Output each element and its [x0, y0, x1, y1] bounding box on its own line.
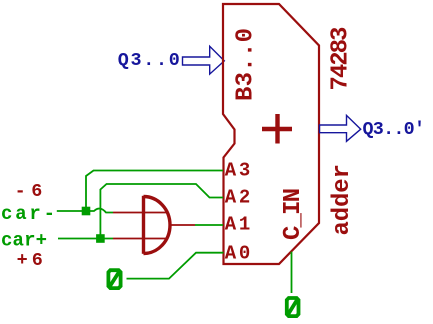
svg-text:adder: adder: [329, 164, 356, 236]
pin label A1: [225, 214, 251, 236]
bus label Q3..0: [118, 50, 180, 71]
svg-text:B3..0: B3..0: [233, 28, 260, 101]
wire junction car- up to A3: [86, 171, 223, 212]
wire C_IN down to constant 0: [291, 252, 293, 293]
wire hop over vertical, car- to gate input: [90, 209, 113, 213]
bus arrow out Q3..0': [320, 115, 361, 141]
svg-text:C_IN: C_IN: [280, 188, 307, 240]
svg-text:Q3..0: Q3..0: [118, 50, 180, 71]
wire car+ to junction and gate input: [58, 238, 113, 240]
wire gate output to A1: [195, 224, 223, 226]
constant 0 source (bottom): [287, 298, 299, 316]
wire junction car+ up to A2: [100, 184, 223, 239]
junction car+: [96, 234, 105, 243]
svg-text:car+: car+: [1, 229, 47, 251]
svg-text:Q3..0': Q3..0': [363, 119, 426, 140]
instance name adder (rotated): [329, 164, 356, 236]
label -6: [15, 181, 43, 202]
AND gate G1 input stub top: [113, 212, 166, 214]
net label car+: [1, 229, 47, 251]
pin label A3: [225, 159, 251, 181]
svg-text:74283: 74283: [328, 27, 355, 91]
constant 0 source (left): [108, 270, 120, 288]
bus arrow into B3..0: [183, 46, 225, 74]
AND gate G1 output stub: [170, 224, 195, 226]
label +6: [17, 250, 43, 271]
pin label A2: [225, 187, 251, 209]
wire constant 0 to A0: [127, 253, 224, 279]
plus symbol inside adder: [262, 114, 292, 144]
pin label A0: [225, 243, 251, 265]
AND gate G1 body: [144, 196, 171, 254]
AND gate G1 input stub bottom: [113, 238, 166, 240]
adder U1 74283 body: [223, 4, 319, 264]
pin label B3..0 (rotated): [233, 28, 260, 101]
pin label C_IN (rotated): [280, 188, 307, 240]
bus label Q3..0': [363, 119, 426, 140]
junction car-: [82, 207, 91, 216]
part number 74283 (rotated): [328, 27, 355, 91]
net label car-: [1, 203, 55, 225]
wire car- to junction: [57, 210, 86, 212]
